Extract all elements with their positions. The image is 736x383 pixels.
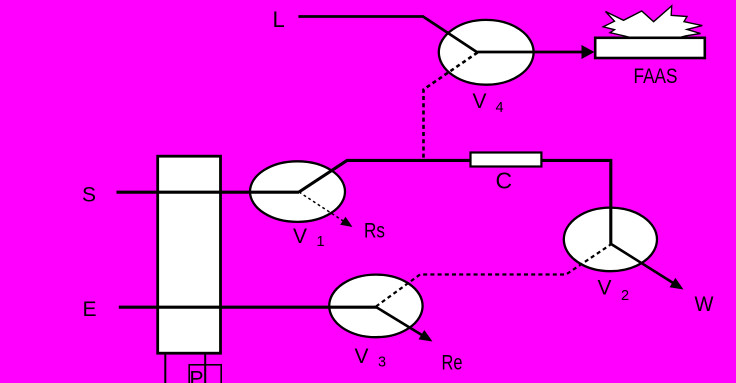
svg-text:2: 2: [621, 288, 629, 304]
svg-text:W: W: [695, 293, 714, 316]
wire L inlet to V4: [298, 17, 477, 53]
svg-text:4: 4: [496, 100, 504, 116]
svg-text:Rs: Rs: [364, 220, 385, 243]
wire S inlet to V1: [117, 191, 300, 194]
arrowhead into FAAS: [582, 45, 595, 59]
arrowhead Re: [419, 330, 433, 342]
dashed wire V1 to Rs: [299, 192, 344, 222]
svg-text:V: V: [355, 345, 369, 368]
svg-text:V: V: [473, 90, 487, 113]
wire E inlet to V3: [119, 306, 377, 309]
detector flame starburst: [603, 6, 702, 40]
svg-text:P: P: [190, 368, 204, 383]
pump rectangle: [158, 156, 221, 353]
svg-text:E: E: [83, 298, 97, 321]
valve V1 ellipse: [250, 161, 345, 222]
wire V3 to Re: [376, 307, 424, 336]
svg-text:V: V: [598, 277, 612, 300]
wire V4 to FAAS: [478, 51, 583, 54]
dashed wire V4 to carrier line: [424, 53, 478, 161]
valve V3 ellipse: [329, 275, 422, 338]
svg-text:1: 1: [317, 234, 325, 250]
svg-text:L: L: [273, 7, 285, 32]
dashed wire V3 to V2: [376, 244, 611, 306]
svg-text:FAAS: FAAS: [634, 64, 678, 88]
wire V2 to W: [611, 244, 674, 283]
FAAS detector box: [595, 38, 705, 58]
column C: [471, 153, 542, 167]
P box inner: [189, 365, 221, 383]
svg-text:Re: Re: [442, 352, 463, 375]
arrowhead W: [670, 278, 684, 290]
svg-text:C: C: [496, 168, 513, 194]
svg-text:V: V: [293, 225, 307, 248]
wire V1 to column C to V2: [299, 160, 611, 244]
valve V4 ellipse: [439, 20, 534, 85]
svg-text:S: S: [82, 184, 96, 207]
P box outer: [165, 354, 205, 383]
svg-text:3: 3: [378, 355, 386, 371]
arrowhead Rs: [340, 217, 352, 227]
valve V2 ellipse: [564, 208, 657, 272]
